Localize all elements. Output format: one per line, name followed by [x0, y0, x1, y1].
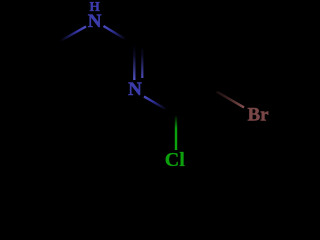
bond C4 - C3 (carbon, invisible)	[176, 21, 217, 45]
double bond C2=N1 main line	[133, 45, 135, 81]
bond C6 - Cl	[175, 115, 177, 150]
bond amine N - C2	[104, 26, 135, 45]
bond C6 - C5 (carbon-carbon, invisible)	[176, 92, 217, 116]
svg-text:Cl: Cl	[165, 149, 185, 171]
bond C3 - C2 (carbon, invisible)	[134, 21, 176, 45]
svg-text:N: N	[128, 79, 142, 100]
bond C5 - Br	[217, 92, 245, 108]
bond C5 - C4 double (carbon, invisible)	[215, 45, 217, 92]
double bond C2=N1 inner line	[141, 49, 143, 78]
bond N1 - C6	[144, 97, 176, 116]
molecule: N-ethyl-5-bromo-6-chloro-pyridin-2-amine on black background	[0, 0, 300, 176]
bond amine N - CH2	[54, 27, 86, 45]
bond CH3-CH2 (carbon-carbon, invisible black)	[13, 21, 54, 45]
svg-text:Br: Br	[247, 105, 269, 126]
svg-text:N: N	[88, 11, 102, 32]
